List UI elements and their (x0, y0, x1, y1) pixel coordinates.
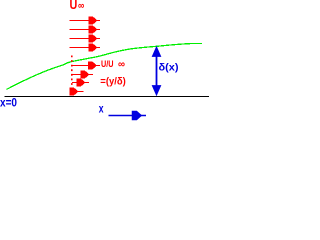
svg-text:x=0: x=0 (0, 96, 17, 110)
svg-text:=(y/δ): =(y/δ) (100, 77, 126, 88)
svg-text:U/U: U/U (101, 59, 114, 70)
svg-text:δ(x): δ(x) (159, 61, 179, 73)
svg-text:U: U (70, 0, 78, 12)
svg-text:∞: ∞ (78, 0, 84, 12)
svg-text:∞: ∞ (118, 58, 125, 70)
svg-text:x: x (99, 102, 104, 116)
